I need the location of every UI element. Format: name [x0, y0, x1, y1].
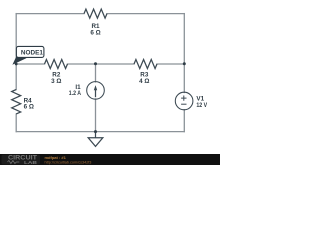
svg-text:4 Ω: 4 Ω [139, 78, 149, 85]
svg-text:1.2 A: 1.2 A [69, 90, 82, 97]
svg-text:6 Ω: 6 Ω [24, 104, 34, 111]
svg-text:6 Ω: 6 Ω [90, 29, 100, 36]
svg-text:LAB: LAB [24, 160, 37, 165]
svg-text:http:/‌/circuitlab.com/cs34zf3: http:/‌/circuitlab.com/cs34zf3 [45, 160, 92, 164]
svg-text:NODE1: NODE1 [21, 49, 43, 56]
svg-text:3 Ω: 3 Ω [51, 78, 61, 85]
svg-text:mdfpat : #1: mdfpat : #1 [45, 155, 67, 160]
svg-text:12 V: 12 V [196, 102, 207, 109]
